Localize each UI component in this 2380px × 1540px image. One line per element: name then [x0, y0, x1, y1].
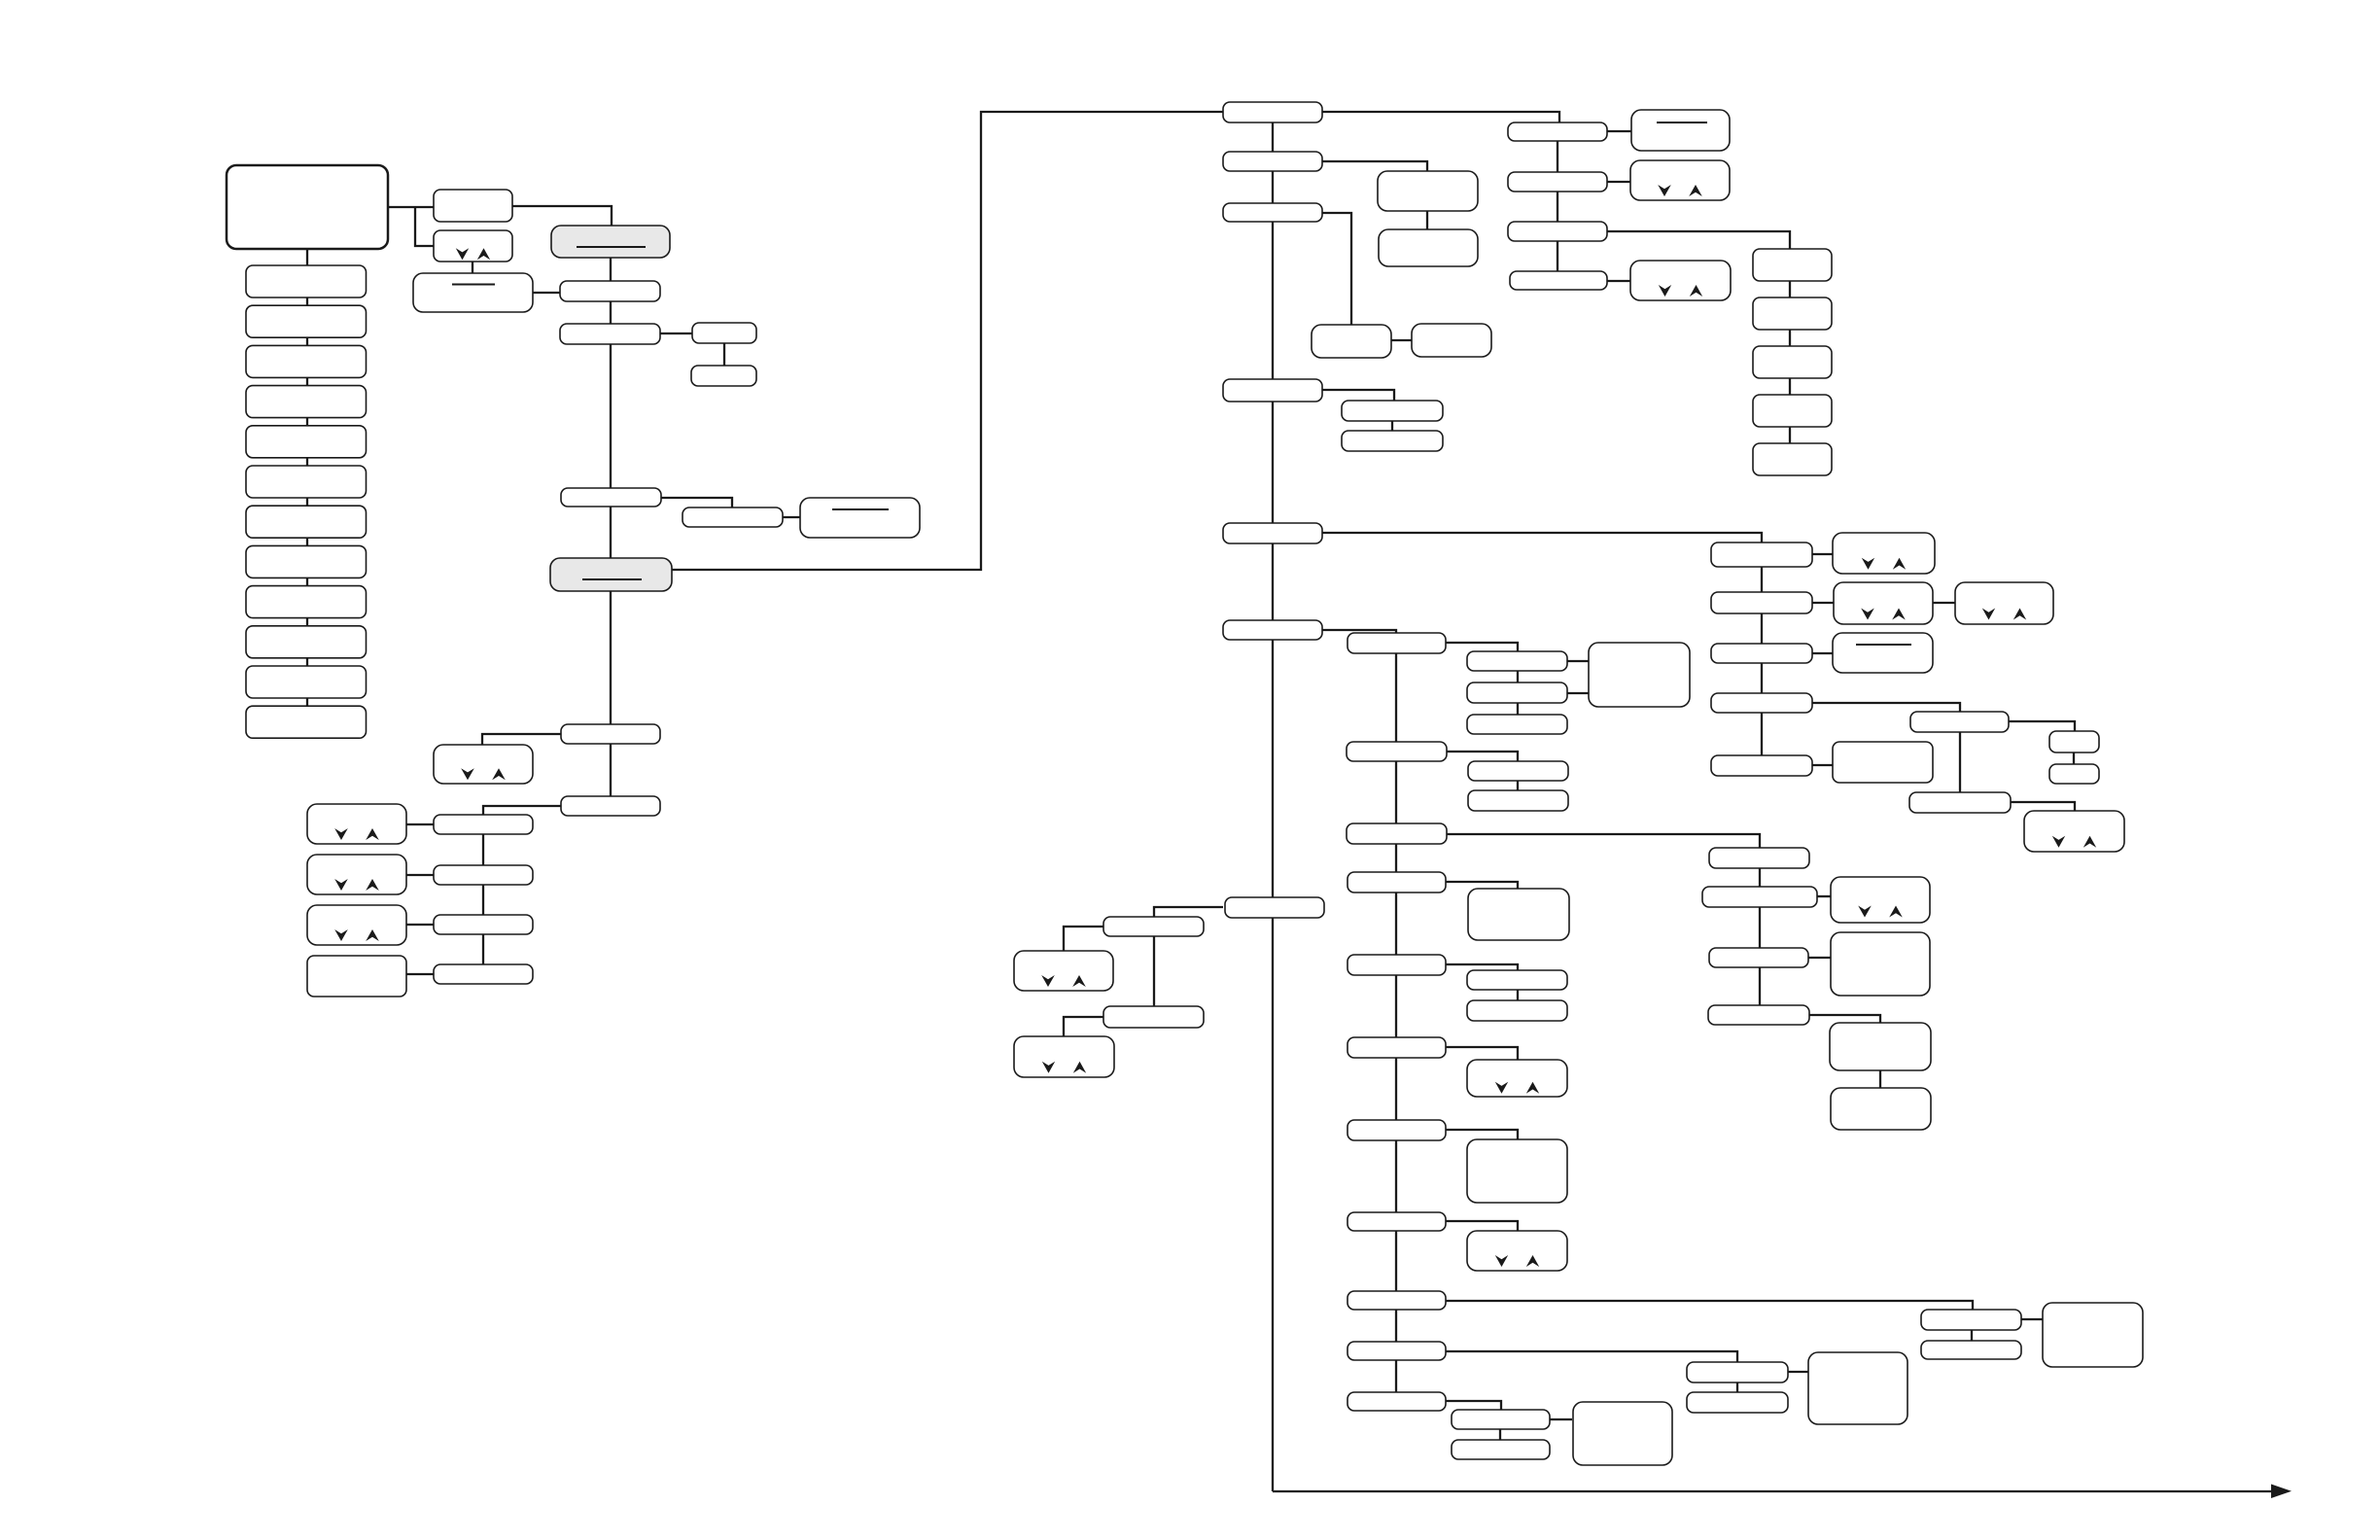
box D4	[307, 956, 406, 997]
wire M12 to M13	[1517, 781, 1519, 790]
box M13	[1468, 790, 1568, 811]
wire G11 to G12	[1446, 1130, 1518, 1139]
wire P1 to P3	[2021, 1318, 2043, 1320]
box S1	[1753, 249, 1832, 281]
wire K2 to J2	[1064, 1017, 1103, 1036]
box LC3	[246, 345, 367, 377]
box with value line E4	[1833, 633, 1933, 673]
box LC12	[246, 706, 367, 738]
wire R12 to E5	[1812, 764, 1833, 766]
box B6	[682, 507, 783, 527]
wire G7 to G8	[1517, 990, 1519, 1000]
box G9	[1347, 1037, 1446, 1058]
root box root	[227, 165, 388, 249]
wire R1 to R2	[1322, 112, 1559, 122]
arrowhead of bottom flow line	[2271, 1485, 2292, 1499]
wire B5 to B6	[661, 498, 732, 507]
wire L6 to M7	[1322, 630, 1396, 633]
wire R9 to E2	[1812, 602, 1834, 604]
box M8	[1467, 651, 1567, 671]
wire D2 to C5	[406, 874, 434, 876]
wire K1 to K2	[1153, 936, 1155, 1006]
box A	[434, 190, 512, 222]
box P2	[1921, 1341, 2021, 1359]
wire W1 to W2	[1736, 1382, 1738, 1392]
wire R8 to E1	[1812, 553, 1833, 555]
box with value line R3	[1631, 110, 1730, 151]
box G12	[1467, 1139, 1567, 1203]
wire H4 to I3	[1809, 1015, 1880, 1024]
wire L2 to M1	[1322, 161, 1427, 172]
wire M7 to M8	[1446, 643, 1518, 651]
box S5	[1753, 443, 1832, 475]
box I4	[1831, 1088, 1931, 1130]
wire L8 to K1	[1154, 907, 1223, 917]
wire G13 to G14	[1446, 1221, 1518, 1231]
wire root bottom trunk (left column)	[306, 249, 308, 739]
box F2	[2049, 731, 2099, 752]
wire B down to C	[472, 262, 473, 273]
wire F1 trunk to F4	[1959, 732, 1961, 792]
box P1	[1921, 1310, 2021, 1330]
wire main left trunk	[1272, 122, 1274, 1491]
box with down/up arrows D2	[307, 855, 406, 894]
box with down/up arrows F5	[2024, 811, 2124, 852]
box with down/up arrows R7a	[1630, 261, 1731, 300]
wire R10 to E4	[1812, 652, 1833, 654]
box with down/up arrows I1	[1831, 877, 1930, 923]
box M1	[1378, 171, 1478, 211]
box M2	[1379, 229, 1478, 266]
wire H3 to I2	[1808, 957, 1831, 959]
box LC2	[246, 305, 367, 337]
wire C1 to C2	[482, 734, 561, 745]
wire M3 to M4	[1391, 339, 1412, 341]
wire F1 to F2	[2009, 721, 2075, 731]
box H1	[1709, 848, 1809, 868]
box I2	[1831, 932, 1930, 996]
box B4b	[691, 366, 756, 386]
box H2	[1702, 887, 1817, 907]
box LC5	[246, 426, 367, 458]
box L8	[1225, 897, 1324, 918]
box W2	[1687, 1392, 1788, 1413]
gray box with value line gray2	[550, 558, 672, 591]
wire R2 to R3	[1607, 130, 1631, 132]
box R2	[1508, 122, 1607, 141]
box S2	[1753, 297, 1832, 330]
box R4	[1508, 172, 1607, 192]
box G2	[1347, 823, 1447, 844]
box R8	[1711, 542, 1812, 567]
box N1	[1589, 643, 1690, 707]
box C6	[434, 915, 533, 934]
box L5	[1223, 523, 1322, 543]
box R10	[1711, 644, 1812, 663]
wire L4 to M5	[1322, 390, 1394, 401]
box G3	[1347, 872, 1446, 892]
box M5	[1342, 401, 1443, 421]
box S3	[1753, 346, 1832, 378]
box G6	[1347, 955, 1446, 975]
box F3	[2049, 764, 2099, 784]
wire B6 to B7	[783, 516, 800, 518]
box G8	[1467, 1000, 1567, 1021]
wire R2 trunk down	[1557, 141, 1558, 271]
box L3	[1223, 203, 1322, 222]
box F4	[1909, 792, 2011, 813]
box P3	[2043, 1303, 2143, 1367]
box R6	[1508, 222, 1607, 241]
box H4	[1708, 1005, 1809, 1025]
box C4	[434, 815, 533, 834]
box G18	[1452, 1410, 1550, 1429]
wire G16 to W1	[1446, 1351, 1737, 1362]
box E5	[1833, 742, 1933, 783]
wire M7 sub trunk down	[1395, 653, 1397, 1392]
wire H trunk down	[1759, 868, 1761, 1005]
wire D4 to C7	[406, 973, 434, 975]
box G11	[1347, 1120, 1446, 1140]
box F1	[1910, 712, 2009, 732]
box K1	[1103, 917, 1204, 936]
wire R11 to F1	[1812, 703, 1960, 712]
box with down/up arrows D1	[307, 804, 406, 844]
box with down/up arrows J2	[1014, 1036, 1114, 1077]
box G16	[1347, 1342, 1446, 1360]
wire W1 to Q1	[1788, 1371, 1808, 1373]
wire root to A/B junction	[388, 206, 434, 208]
box R11	[1711, 693, 1812, 713]
wire K1 to J1	[1064, 927, 1103, 951]
box M9	[1467, 682, 1567, 703]
box with down/up arrows G10	[1467, 1060, 1567, 1097]
wire junction down to B	[415, 207, 434, 246]
box with value line B7	[800, 498, 920, 538]
box with down/up arrows G14	[1467, 1231, 1567, 1271]
wire B3 to B4a	[660, 332, 692, 334]
box M7	[1347, 633, 1446, 653]
box LC6	[246, 466, 367, 498]
box L2	[1223, 152, 1322, 171]
wire H2 to I1	[1817, 895, 1831, 897]
wire bottom arrow line	[1273, 1490, 2272, 1492]
wire G3 to G4	[1446, 882, 1518, 889]
box LC7	[246, 506, 367, 538]
box with value line C	[413, 273, 533, 312]
wire P1 to P2	[1971, 1330, 1973, 1341]
box G19	[1452, 1440, 1550, 1459]
wire C to B2	[533, 292, 560, 294]
box LC1	[246, 265, 367, 297]
box B5	[561, 488, 661, 507]
wire R8 trunk down	[1761, 567, 1763, 755]
box with down/up arrows E3	[1955, 582, 2053, 624]
box M10	[1467, 715, 1567, 734]
box R12	[1711, 755, 1812, 776]
wire R7 to R7a	[1607, 280, 1632, 282]
box S4	[1753, 395, 1832, 427]
wire M11 to M12	[1447, 752, 1518, 761]
box LC8	[246, 545, 367, 577]
box B3	[560, 324, 660, 344]
box LC9	[246, 586, 367, 618]
box R1	[1223, 102, 1322, 122]
wire L5 to R8	[1322, 533, 1762, 542]
box B2	[560, 281, 660, 301]
box with down/up arrows D3	[307, 905, 406, 945]
wire G9 to G10	[1446, 1047, 1518, 1060]
wire S chain connector	[1789, 281, 1791, 443]
box Q1	[1808, 1352, 1907, 1424]
wire B4a to B4b	[723, 343, 725, 366]
box M4	[1412, 324, 1491, 357]
box H3	[1709, 948, 1808, 967]
wire M5 to M6	[1391, 421, 1393, 431]
box LC4	[246, 386, 367, 418]
wire D1 to C4	[406, 823, 434, 825]
box LC10	[246, 626, 367, 658]
box M6	[1342, 431, 1443, 451]
box G4	[1468, 889, 1569, 940]
box L4	[1223, 379, 1322, 402]
wire G6 to G7	[1446, 964, 1518, 970]
wire F2 to F3	[2073, 752, 2075, 764]
wire M8 to N1	[1567, 660, 1589, 662]
wire G18 to G20	[1550, 1418, 1572, 1420]
wire C4-C7 connector	[482, 834, 484, 984]
box with down/up arrows E2	[1834, 582, 1933, 624]
gray box with value line gray1	[551, 226, 670, 258]
wire M1 to M2	[1426, 211, 1428, 229]
box G7	[1467, 970, 1567, 990]
box G15	[1347, 1291, 1446, 1310]
box K2	[1103, 1006, 1204, 1028]
box R9	[1711, 592, 1812, 613]
wire F4 to F5	[2011, 802, 2075, 811]
wire E2 to E3	[1933, 602, 1955, 604]
box with down/up arrows Bb	[434, 230, 512, 262]
wire R4 to R5	[1607, 181, 1631, 183]
box G13	[1347, 1212, 1446, 1231]
wire M9 to M10	[1517, 703, 1519, 715]
wire R6 to S chain	[1607, 231, 1790, 249]
wire L3 to M3	[1322, 213, 1351, 325]
box C5	[434, 865, 533, 885]
box G17	[1347, 1392, 1446, 1411]
box M11	[1347, 742, 1447, 761]
box G20	[1573, 1402, 1672, 1465]
wire gray2 to R1 long route	[672, 112, 1223, 570]
box C3	[561, 796, 660, 816]
wire A to gray1	[512, 206, 612, 227]
wire M8 to M9	[1517, 671, 1519, 682]
wire M9 to N1	[1567, 692, 1589, 694]
box R7	[1510, 271, 1607, 290]
wire G18 to G19	[1499, 1429, 1501, 1440]
box C1	[561, 724, 660, 744]
box with down/up arrows J1	[1014, 951, 1113, 991]
wire G17 to G18	[1446, 1401, 1501, 1410]
wire G2 to H1	[1447, 834, 1760, 848]
wire I3 to I4	[1879, 1070, 1881, 1088]
box with down/up arrows C2	[434, 745, 533, 784]
box with down/up arrows R5	[1630, 160, 1730, 200]
box with down/up arrows E1	[1833, 533, 1935, 574]
box M3	[1312, 325, 1391, 358]
wire D3 to C6	[406, 924, 434, 926]
box LC11	[246, 666, 367, 698]
wire gray1 trunk down	[610, 258, 612, 796]
wire C3 to C4	[483, 806, 561, 815]
box M12	[1468, 761, 1568, 781]
wire G15 to P1	[1446, 1301, 1973, 1310]
box C7	[434, 964, 533, 984]
box W1	[1687, 1362, 1788, 1382]
box L6	[1223, 620, 1322, 640]
box I3	[1830, 1023, 1931, 1070]
box B4a	[692, 323, 756, 343]
